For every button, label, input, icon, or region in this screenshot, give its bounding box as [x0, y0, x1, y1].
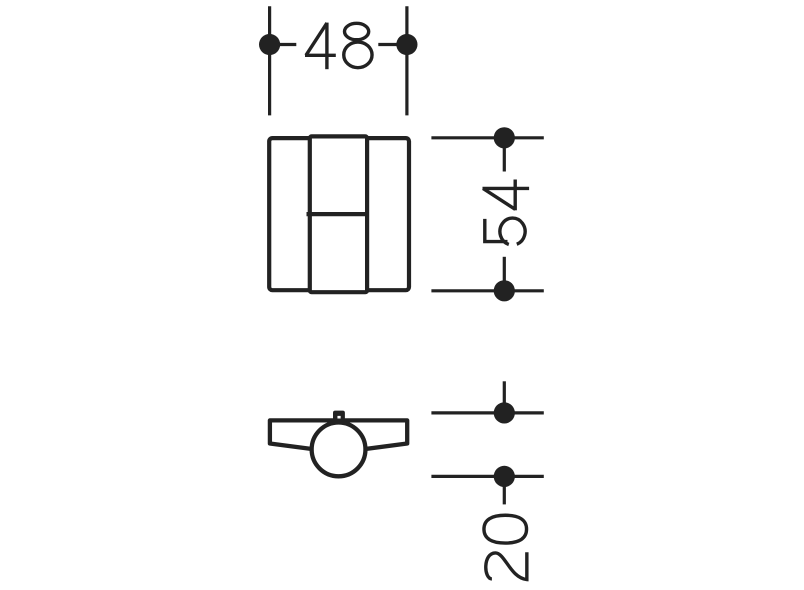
top view: wings [270, 420, 407, 452]
dim 54: bottom dot [494, 280, 515, 301]
top view: circle [312, 423, 366, 477]
dim 20: digit 2 (rotated) [486, 552, 527, 579]
dim 48: left extension line [268, 6, 271, 115]
dim 54: digit 4 (rotated) [483, 180, 530, 211]
dim 48: right leader [378, 43, 407, 46]
top view: tab [333, 411, 345, 421]
dim 48: left leader [270, 43, 297, 46]
dim 54: top extension line [431, 136, 543, 139]
dim 20: digit 0 (rotated) [484, 515, 527, 543]
dim 20: top extension line [431, 411, 543, 414]
dim 54: bottom leader [503, 257, 506, 291]
dim 20: bottom extension line [431, 475, 543, 478]
dim 20: lower stub line [503, 476, 506, 504]
dim 48: right dot [396, 34, 417, 55]
dim 54: top leader [503, 138, 506, 172]
dim 54: digit 5 (rotated) [485, 218, 525, 244]
dim 20: bottom dot [494, 466, 515, 487]
dim 20: upper stub line [503, 381, 506, 413]
dim 48: digit 8 [344, 23, 372, 67]
dim 48: digit 4 [305, 23, 336, 70]
front view: middle column rect [310, 136, 367, 292]
front view: outer body rect [269, 138, 409, 290]
dim 54: top dot [494, 127, 515, 148]
dim 48: left dot [259, 34, 280, 55]
dim 48: right extension line [405, 6, 408, 115]
dim 54: bottom extension line [431, 289, 543, 292]
dim 20: top dot [494, 402, 515, 423]
top view: tab hole [337, 416, 340, 419]
front view: divider line [307, 212, 368, 216]
